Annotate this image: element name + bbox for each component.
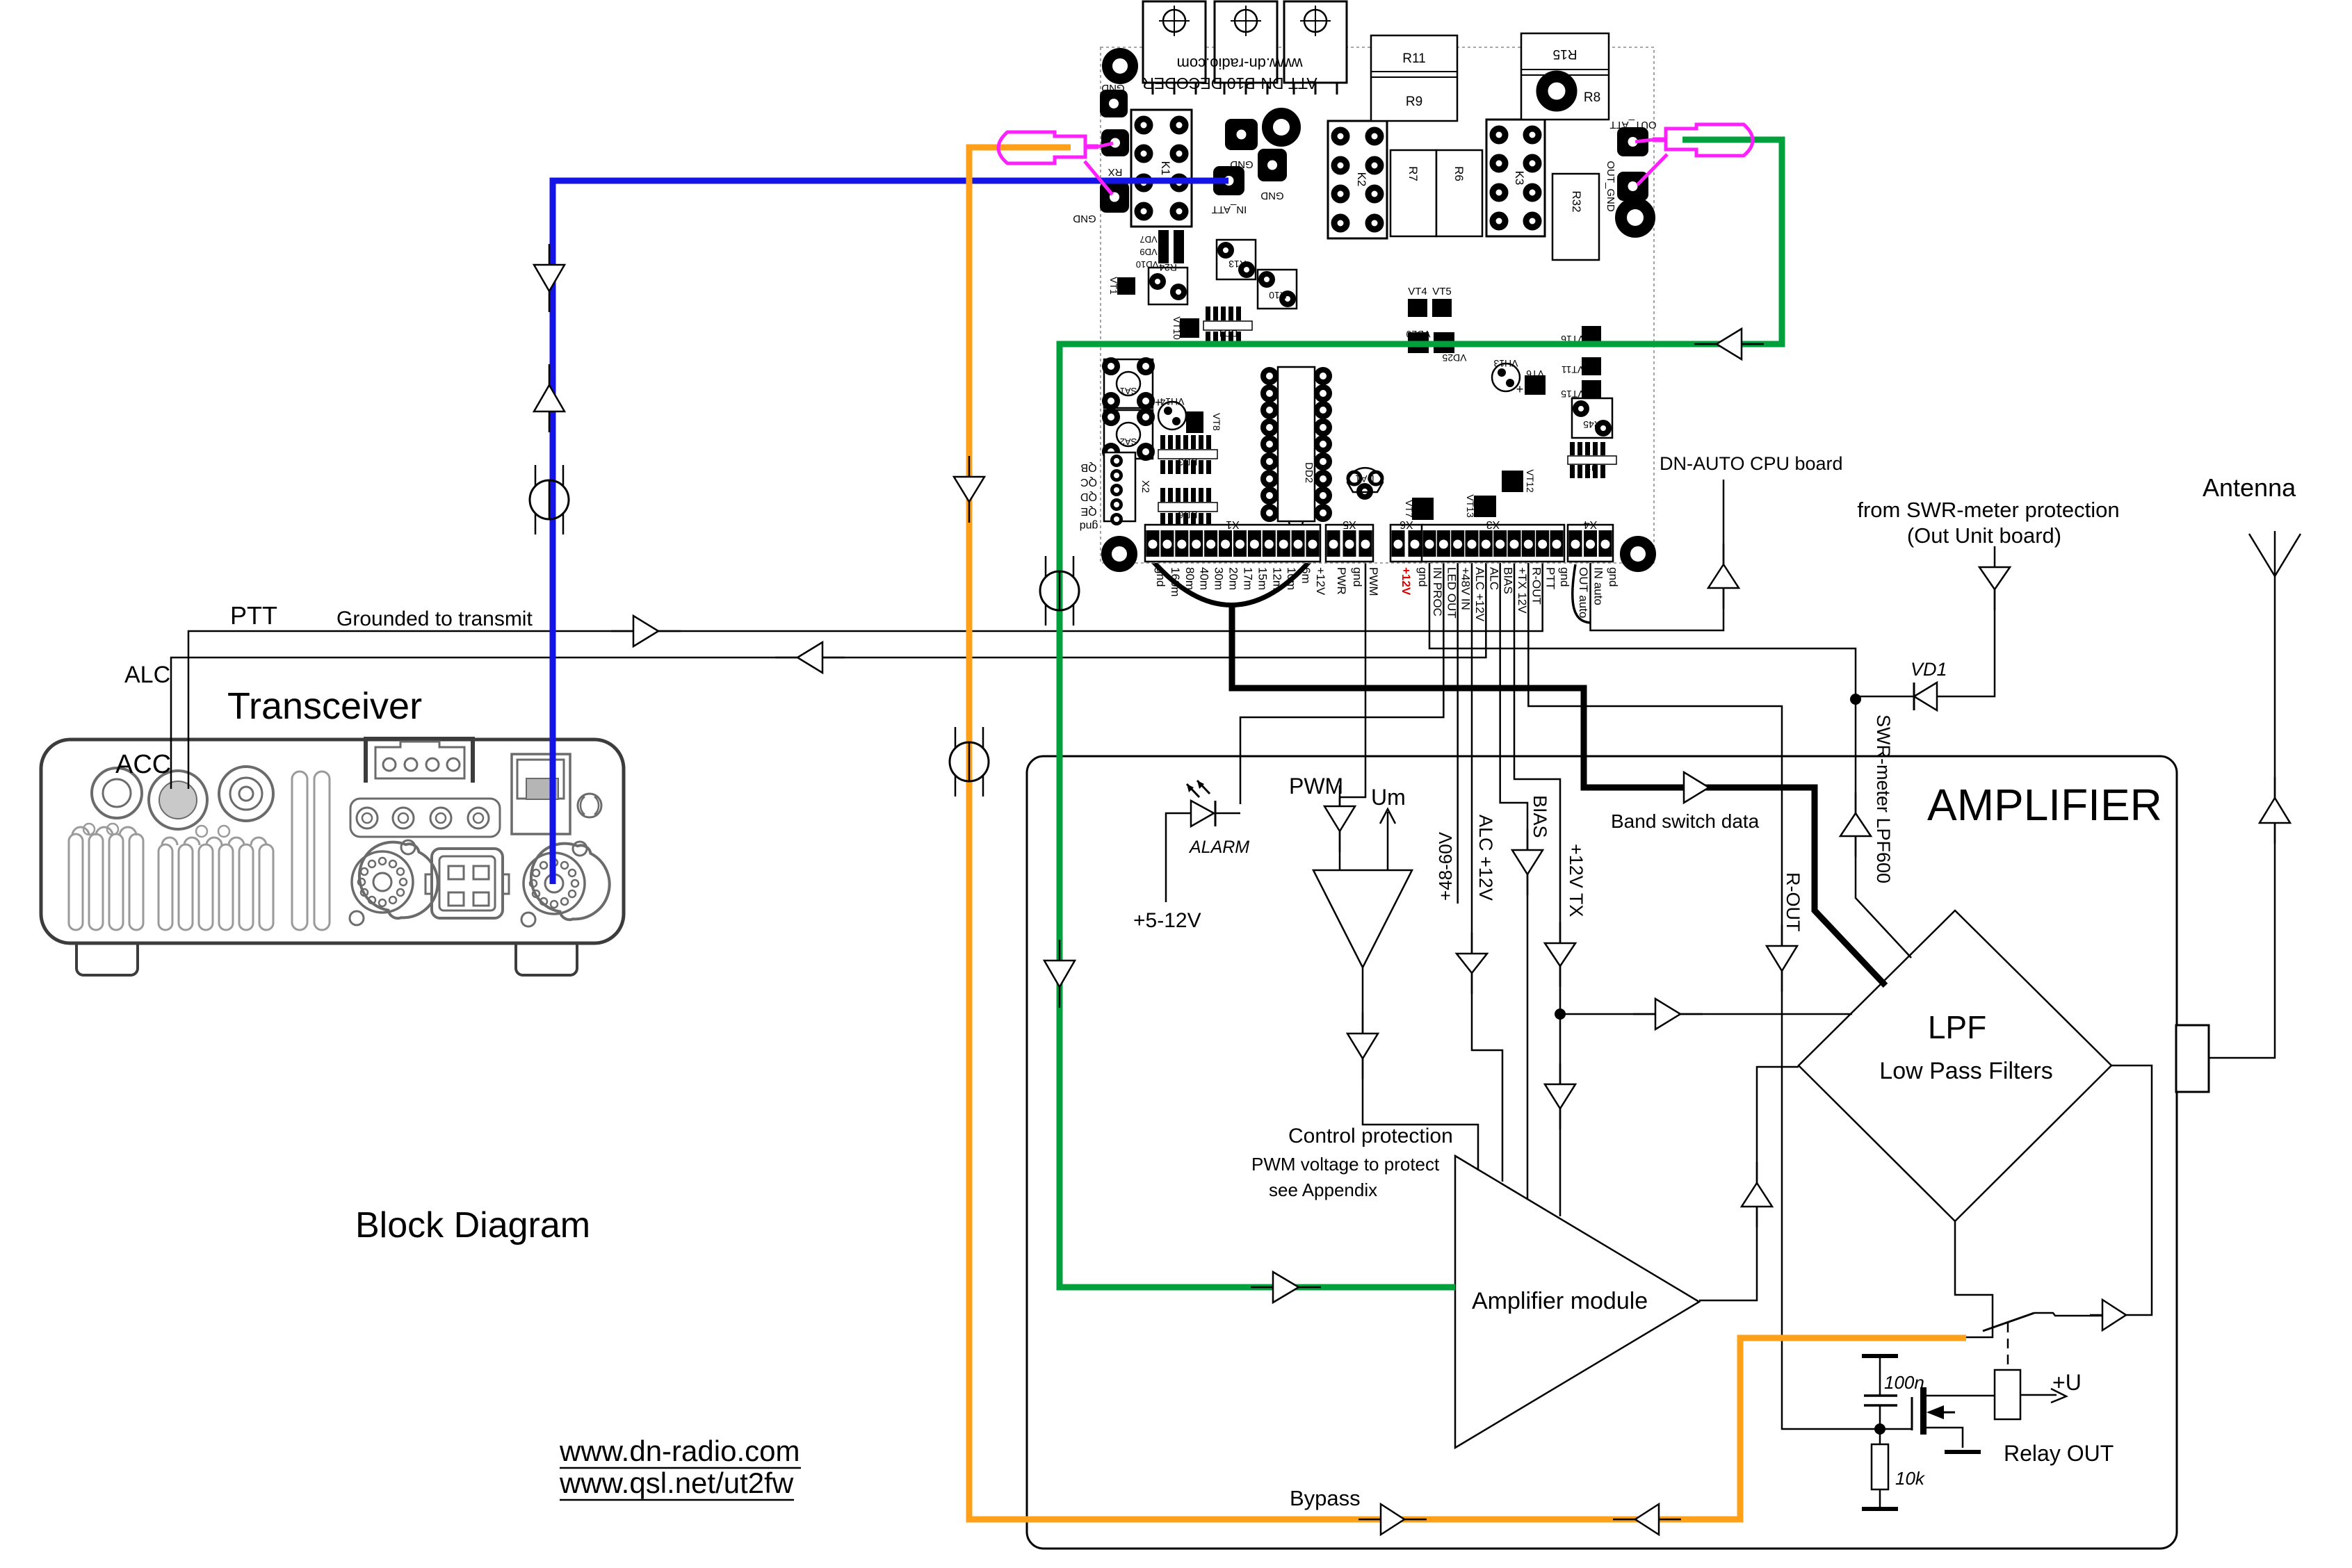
svg-text:X4: X4 [1584,518,1598,530]
svg-text:from SWR-meter protection: from SWR-meter protection [1857,498,2119,522]
svg-text:gnd: gnd [1416,567,1429,587]
RCA plug right (to OUT_ATT) [1666,124,1753,156]
top relay boxes [1143,1,1206,83]
svg-text:QB: QB [1080,462,1096,473]
VT1 [1117,277,1135,295]
svg-text:gnd: gnd [1154,567,1167,587]
svg-text:SA1: SA1 [1120,386,1137,396]
relay box [1995,1370,2020,1419]
svg-text:ALC: ALC [124,662,170,688]
connector X1 [1145,525,1320,562]
svg-text:R24: R24 [1159,262,1177,273]
U1 [1570,442,1575,455]
svg-text:R8: R8 [1584,90,1600,105]
svg-text:VT12: VT12 [1525,469,1536,493]
svg-text:SWR-meter LPF600: SWR-meter LPF600 [1873,714,1894,883]
svg-text:VT1: VT1 [1108,277,1119,295]
svg-text:X2: X2 [1139,480,1151,493]
svg-text:Amplifier module: Amplifier module [1472,1288,1648,1314]
4-hole plate [350,799,500,837]
svg-text:R32: R32 [1570,190,1583,212]
svg-text:+U: +U [2052,1370,2082,1395]
VT4 VT5 [1408,299,1427,317]
svg-text:see Appendix: see Appendix [1269,1179,1377,1200]
svg-text:VD20: VD20 [1406,329,1430,340]
top speaker connector [366,739,473,783]
svg-text:Low Pass Filters: Low Pass Filters [1879,1058,2052,1084]
ground (100n top) [1862,1354,1898,1358]
relay coil dashed link [2007,1323,2009,1370]
IN_ATT pad [1213,166,1244,195]
heatsink fins [69,834,83,930]
IN PROC / SWR protection wire [1429,563,1911,958]
DD6 [1160,488,1165,502]
svg-text:ALC +12V: ALC +12V [1475,815,1496,901]
RJ jack [512,754,570,834]
transceiver feet [76,943,138,975]
svg-text:6m: 6m [1299,567,1313,584]
VT7 VT13 VT12 [1412,498,1434,520]
svg-text:40m: 40m [1198,567,1211,590]
svg-text:DD6: DD6 [1178,509,1197,521]
svg-text:PWM: PWM [1289,774,1343,799]
green wire arrow to amplifier module [1251,1287,1321,1289]
svg-text:R7: R7 [1406,166,1420,181]
svg-text:ACC: ACC [115,750,171,779]
svg-text:17m: 17m [1241,567,1254,590]
antenna symbol [2249,534,2275,576]
node: +12V TX junction [1555,1008,1566,1020]
svg-text:VD7: VD7 [1139,234,1157,245]
svg-text:Block Diagram: Block Diagram [355,1205,590,1246]
svg-text:+12V: +12V [1314,567,1327,596]
svg-text:15m: 15m [1256,567,1269,590]
R11 R9 block [1371,35,1457,121]
PCB board outline [1101,47,1654,563]
ground (MOSFET source) [1945,1450,1981,1454]
svg-text:K3: K3 [1513,171,1526,186]
node: gate junction [1874,1423,1885,1435]
svg-text:PTT: PTT [230,601,277,630]
svg-text:K1: K1 [1159,161,1172,176]
transceiver body [41,740,624,943]
svg-text:ALARM: ALARM [1188,838,1249,857]
LPF diamond [1799,910,2111,1221]
svg-text:+TX 12V: +TX 12V [1516,567,1529,614]
diode VD1 [1856,696,1914,698]
svg-text:PWM: PWM [1367,567,1380,596]
svg-text:R-OUT: R-OUT [1783,872,1803,931]
R15 R8 block [1521,33,1609,120]
svg-text:DD1: DD1 [1218,328,1238,339]
svg-text:+: + [1516,382,1524,396]
+TX 12V wire [1514,563,1560,1216]
svg-text:+48V IN: +48V IN [1459,567,1473,610]
DD1 [1206,307,1210,320]
DD3 [1160,435,1165,449]
svg-text:DD3: DD3 [1178,457,1197,468]
VT10 [1180,318,1199,338]
svg-text:X5: X5 [1343,518,1356,530]
+48V IN stub [1457,563,1459,904]
VT16 VT11 VT15 [1582,326,1601,345]
comparator output to control protection [1363,967,1478,1170]
green wire arrow and connector symbol [1040,571,1079,610]
svg-text:R6: R6 [1452,166,1466,181]
svg-text:PWR: PWR [1335,567,1348,595]
svg-text:gnd: gnd [1080,520,1098,532]
amplifier box [1027,756,2177,1549]
svg-text:160m: 160m [1169,567,1182,597]
svg-text:OUT_ATT: OUT_ATT [1609,119,1656,131]
svg-text:80m: 80m [1183,567,1197,590]
R-OUT wire [1528,563,1880,1429]
bypass arrows [1359,1519,1427,1521]
OUT_ATT pad [1617,127,1648,156]
svg-text:+48-60V: +48-60V [1435,831,1456,901]
svg-text:DA1: DA1 [1355,473,1374,484]
PWM wire [1340,563,1365,870]
svg-text:BIAS: BIAS [1530,795,1550,838]
svg-text:R11: R11 [1402,51,1425,66]
SO-239 antenna socket right [526,839,615,924]
svg-text:gnd: gnd [1607,567,1620,587]
VD20 VD25 [1408,332,1429,353]
svg-text:ATT-DN-B10 DECODER: ATT-DN-B10 DECODER [1142,74,1317,92]
orange wire arrow and connector symbol [968,456,971,523]
svg-text:R10: R10 [1269,290,1287,301]
VT8 [1186,411,1203,433]
green wire arrow on top run [1694,343,1764,345]
svg-text:Band switch data: Band switch data [1611,810,1760,832]
svg-text:+12V: +12V [1400,567,1413,596]
svg-text:GND: GND [1101,82,1125,94]
blue wire arrows and connector symbol [549,244,551,312]
SO-239 antenna socket left [354,838,443,923]
svg-text:VT8: VT8 [1211,413,1222,431]
svg-text:DD2: DD2 [1303,462,1315,483]
relays K1 K2 K3 [1131,110,1192,227]
DD2 DIP IC [1278,367,1315,521]
wire: orange bypass path [969,147,1966,1519]
Um indicator [1387,812,1389,870]
ACC DIN connector [149,771,207,829]
svg-text:+: + [1155,395,1162,409]
PTT wire [188,563,1543,789]
MOSFET [1880,1428,1912,1430]
svg-text:IN auto: IN auto [1592,567,1605,605]
connector X5 [1326,525,1373,562]
ALC +12V wire [1472,563,1502,1182]
switch to LPF right vertex [2111,1065,2152,1315]
svg-text:VT5: VT5 [1432,286,1452,297]
svg-text:X3: X3 [1486,518,1500,530]
svg-text:30m: 30m [1213,567,1226,590]
svg-text:OUT auto: OUT auto [1577,567,1590,618]
svg-text:ALC: ALC [1487,567,1500,590]
svg-text:AMPLIFIER: AMPLIFIER [1927,780,2162,830]
svg-text:(Out Unit board): (Out Unit board) [1907,523,2061,548]
svg-text:VD9: VD9 [1139,247,1157,257]
BIAS wire [1500,563,1527,1200]
svg-text:OUT_GND: OUT_GND [1605,161,1616,212]
svg-text:K2: K2 [1355,172,1368,187]
connector X3 [1422,525,1564,562]
OUT auto jumper arc [1573,564,1591,623]
svg-text:U1: U1 [1586,462,1598,473]
R32 [1552,174,1599,260]
R13 [1217,240,1256,279]
R10 [1258,270,1297,309]
connector X6 [1390,525,1422,562]
LPF bottom to bypass switch [1955,1221,1993,1337]
X2 connector [1104,452,1135,521]
svg-text:R45: R45 [1583,419,1601,430]
svg-text:ALC +12V: ALC +12V [1473,567,1486,622]
GND pads [1100,90,1128,117]
svg-text:www.dn-radio.com: www.dn-radio.com [1177,55,1304,72]
svg-text:Control protection: Control protection [1288,1125,1453,1148]
mounting holes [1108,54,1133,79]
R45 [1572,398,1612,438]
svg-text:VT13: VT13 [1465,494,1476,518]
svg-text:20m: 20m [1227,567,1240,590]
ALC wire [171,563,1486,789]
ALARM LED [1215,812,1240,815]
svg-text:VT10: VT10 [1171,316,1183,340]
svg-text:QE: QE [1080,505,1096,517]
svg-text:GND: GND [1260,190,1284,202]
screw [578,794,601,817]
10k resistor [1879,1429,1881,1444]
svg-text:VT6: VT6 [1526,368,1544,379]
VH14 [1158,402,1186,430]
svg-text:LPF: LPF [1928,1009,1986,1045]
svg-text:VD1: VD1 [1911,659,1947,680]
svg-text:RX: RX [1108,166,1123,178]
connector X4 [1568,525,1613,562]
svg-text:X1: X1 [1226,518,1240,530]
svg-text:X6: X6 [1400,518,1413,530]
svg-text:QC: QC [1080,476,1097,488]
svg-text:DN-AUTO CPU board: DN-AUTO CPU board [1660,453,1843,474]
svg-text:R13: R13 [1228,259,1247,270]
svg-text:LED OUT: LED OUT [1445,567,1458,619]
IN auto wire to DN-AUTO label [1591,480,1724,630]
relay +U output [2020,1394,2057,1396]
svg-text:BIAS: BIAS [1502,567,1515,594]
OUT_GND pad [1617,172,1648,201]
diodes VD7 VD9 VD10 [1158,230,1169,263]
svg-text:R9: R9 [1406,95,1422,109]
svg-text:Relay OUT: Relay OUT [2004,1441,2114,1466]
svg-text:www.qsl.net/ut2fw: www.qsl.net/ut2fw [559,1467,794,1499]
RCA plug left (to RX input) [998,132,1085,163]
amp module output to LPF [1699,1067,1799,1300]
DC power connector [432,849,503,918]
svg-text:Um: Um [1371,785,1406,810]
comparator triangle (control protection) [1313,870,1412,967]
+12V TX to LPF [1560,1013,1852,1015]
svg-text:gnd: gnd [1558,567,1571,587]
svg-text:10m: 10m [1285,567,1298,590]
svg-text:+12V TX: +12V TX [1566,844,1587,917]
bypass switch lever [1983,1313,2034,1331]
DA1 [1347,468,1383,492]
R7 R6 block [1390,150,1436,236]
svg-text:Antenna: Antenna [2203,473,2296,502]
ground (10k bottom) [1862,1507,1898,1511]
svg-text:VT4: VT4 [1408,286,1427,297]
buttons SA1 SA2 [1104,359,1153,408]
svg-text:R15: R15 [1553,47,1578,61]
amplifier module triangle [1455,1156,1699,1448]
svg-text:www.dn-radio.com: www.dn-radio.com [559,1435,800,1467]
wire: blue coax transceiver to IN_ATT [553,181,1228,884]
svg-text:PWM voltage to protect: PWM voltage to protect [1251,1154,1440,1175]
svg-text:QD: QD [1080,491,1097,503]
svg-text:VT7: VT7 [1404,500,1415,518]
phones jack [92,768,142,818]
svg-text:VD25: VD25 [1442,352,1466,364]
antenna connector box on amplifier [2176,1025,2209,1092]
svg-text:12m: 12m [1270,567,1283,590]
svg-text:IN_ATT: IN_ATT [1212,204,1247,215]
wire: green RX path [1060,140,1782,1287]
svg-text:Grounded to transmit: Grounded to transmit [336,607,533,630]
svg-text:GND: GND [1073,213,1096,224]
svg-text:10k: 10k [1895,1468,1926,1489]
svg-text:VT11: VT11 [1562,364,1584,375]
thick band switch data cable [1152,560,1311,605]
svg-text:Bypass: Bypass [1290,1486,1361,1510]
svg-text:VH14: VH14 [1160,396,1184,407]
R24 [1149,268,1187,304]
svg-text:100n: 100n [1884,1372,1924,1393]
key jack [219,767,273,821]
svg-text:gnd: gnd [1351,567,1364,587]
VH13 [1492,364,1520,391]
RX pad [1101,129,1129,156]
LED OUT wire to ALARM [1240,563,1443,804]
VT6 [1525,375,1546,395]
svg-text:VH13: VH13 [1493,358,1518,369]
svg-text:Transceiver: Transceiver [227,685,422,727]
svg-text:+5-12V: +5-12V [1133,909,1201,932]
svg-text:SA2: SA2 [1120,436,1137,447]
node: VD1 junction [1850,694,1861,705]
antenna lead [2209,576,2275,1058]
svg-text:PTT: PTT [1544,567,1557,589]
svg-text:R-OUT: R-OUT [1530,567,1543,605]
svg-text:IN PROC: IN PROC [1431,567,1444,616]
